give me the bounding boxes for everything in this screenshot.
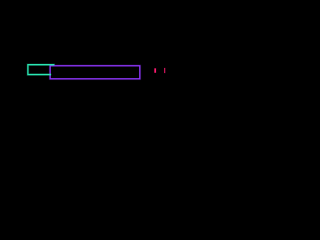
purple box bbox=[50, 66, 140, 79]
teal box (open path: bottom, left, top; right edge hidden) bbox=[28, 65, 54, 75]
pink bar 2 bbox=[164, 68, 165, 74]
pink bar 1 bbox=[154, 68, 156, 73]
